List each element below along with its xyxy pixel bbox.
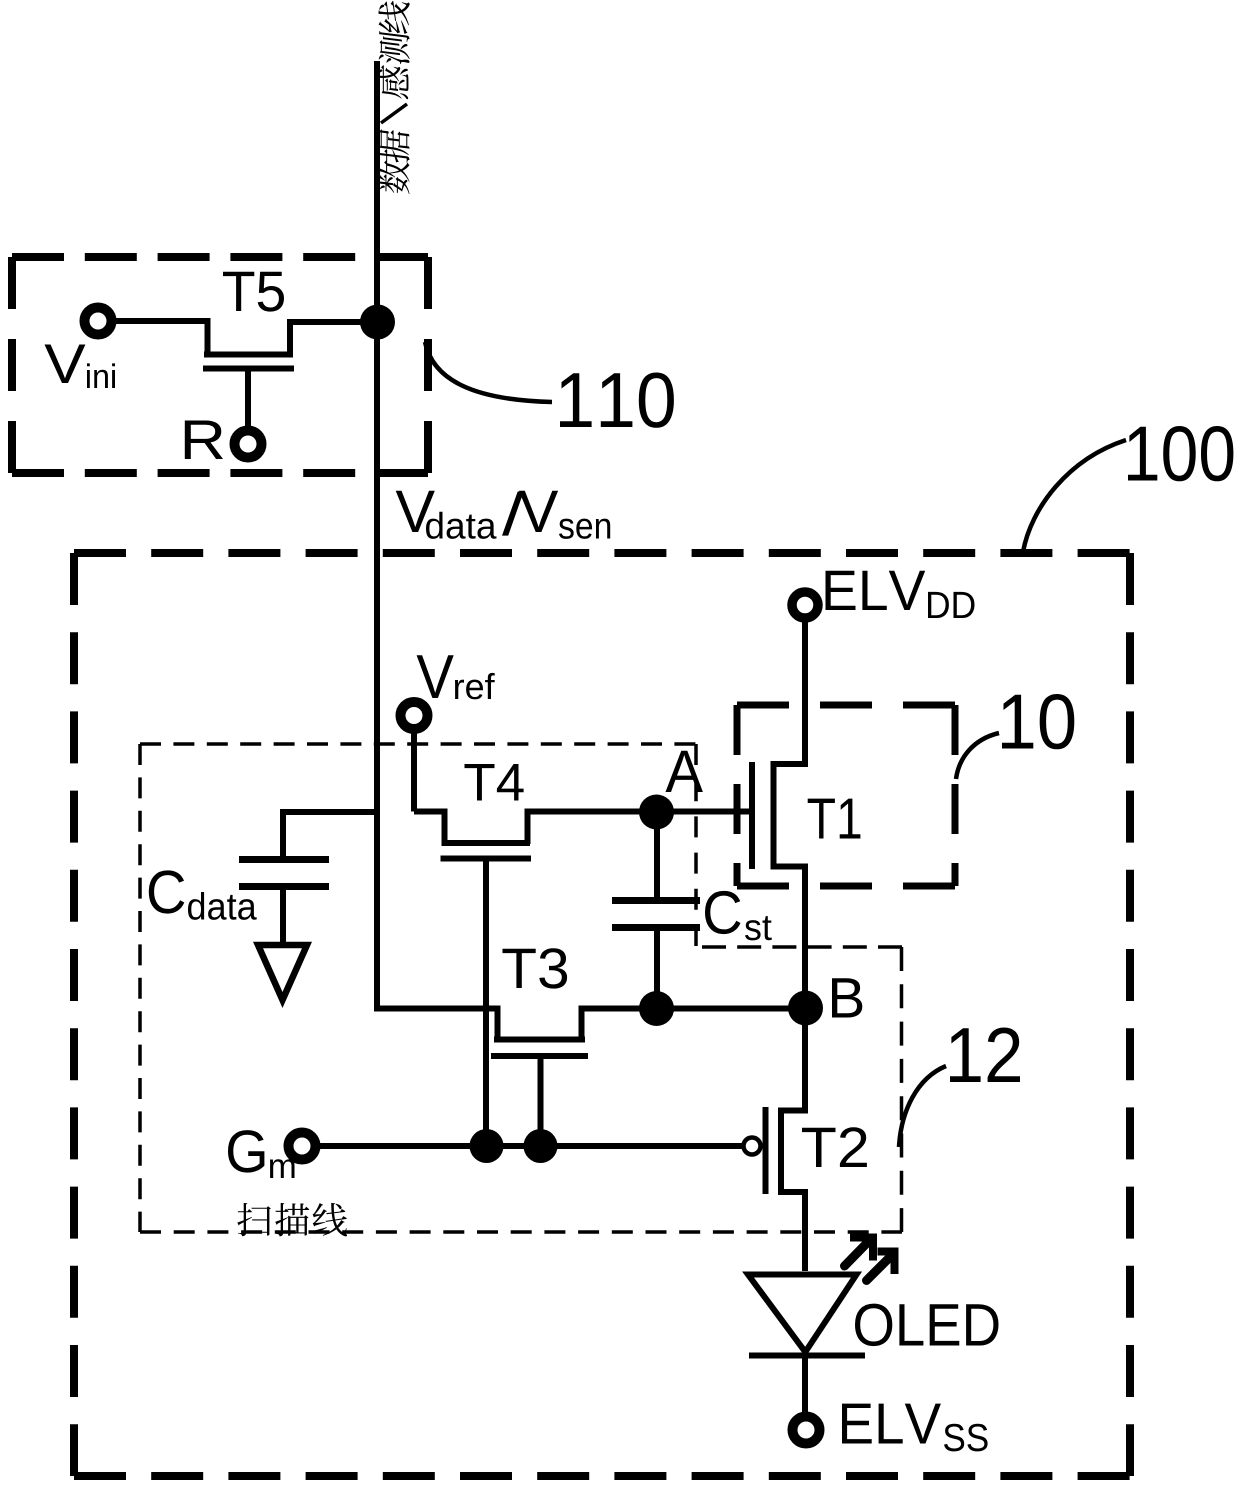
label node B: [832, 978, 862, 1017]
label T3: [503, 948, 568, 988]
transistor T2 gate bubble: [744, 1138, 761, 1155]
transistor T4 channel: [442, 840, 531, 846]
ground symbol: [258, 945, 307, 1000]
node B: [788, 991, 823, 1026]
leader curve to label 110: [425, 342, 552, 402]
transistor T3 channel: [494, 1037, 585, 1043]
terminal Vini: [85, 308, 112, 335]
label scan line (扫描线): [237, 1203, 347, 1237]
label data/sense line (数据/感测线, rotated): [378, 0, 409, 195]
dashed box 10 (driving transistor unit): [737, 705, 955, 886]
label 110: [560, 373, 674, 428]
label T4: [465, 764, 524, 801]
label T1: [808, 799, 861, 839]
wire: node A to T1 gate: [657, 809, 749, 815]
dashed box 110 (initialization unit): [12, 257, 428, 473]
node A: [639, 795, 674, 830]
label 12: [950, 1028, 1020, 1083]
wire: T5 drain to data line: [290, 322, 362, 355]
label 10: [1002, 694, 1074, 749]
label ELVDD: [826, 571, 975, 618]
label Cst: [705, 891, 772, 941]
terminal R: [235, 431, 262, 458]
transistor T3 gate bar: [491, 1053, 588, 1059]
label OLED: [855, 1304, 999, 1347]
label T5: [223, 272, 284, 312]
wire: T4 drain to node A: [528, 812, 658, 845]
wire: Gm scan line: [320, 1143, 742, 1149]
transistor T2 channel with leads (node B to OLED): [781, 1010, 805, 1271]
terminal Gm: [289, 1133, 316, 1160]
wire: T5 gate lead to R: [245, 368, 251, 426]
label Cdata: [149, 870, 257, 920]
label node A: [666, 751, 703, 792]
transistor T2 gate bar: [763, 1107, 769, 1194]
junction: T3 gate on scan line: [524, 1129, 558, 1163]
capacitor Cst plates: [612, 897, 700, 904]
wire: Cdata bottom lead: [280, 890, 286, 942]
label R: [185, 421, 223, 460]
terminal ELVDD: [792, 592, 818, 618]
dashed box 100 (pixel circuit): [74, 553, 1130, 1476]
terminal ELVSS: [793, 1417, 820, 1444]
junction: T4 gate on scan line: [470, 1129, 504, 1163]
capacitor Cdata plates: [239, 856, 329, 863]
wire: data/sense line (vertical): [374, 61, 380, 1009]
transistor T5 gate bar: [203, 366, 294, 372]
transistor T1 channel with drain/source leads: [774, 620, 806, 1007]
OLED cathode bar: [749, 1353, 865, 1359]
leader curve to label 100: [1023, 440, 1126, 552]
wire: Cst top lead from node A: [654, 826, 660, 897]
transistor T5 channel: [204, 352, 293, 358]
label Gm: [228, 1130, 295, 1178]
wire: OLED cathode to ELVSS: [802, 1356, 808, 1412]
label Vdata/Vsen: [396, 491, 611, 539]
wire: T5 source from Vini: [114, 321, 208, 355]
junction: T5 drain on data line: [360, 305, 395, 340]
thin dashed box (scan region): [140, 744, 902, 1232]
dashed box 12 (switch unit): [702, 947, 902, 1232]
wire: T4 source: [414, 812, 445, 845]
label T2: [802, 1127, 867, 1167]
wire: T3 gate lead to scan line: [538, 1056, 544, 1146]
label ELVSS: [842, 1404, 988, 1452]
label Vini: [45, 345, 116, 389]
leader curve to label 12: [899, 1066, 946, 1147]
wire: T3 source from data line: [374, 1009, 498, 1041]
OLED emission arrow 2: [867, 1252, 895, 1281]
junction: Cst bottom on B wire: [639, 991, 674, 1026]
OLED emission arrow 1: [845, 1238, 874, 1267]
wire: Cst bottom lead: [654, 931, 660, 1008]
terminal Vref: [401, 702, 428, 729]
wire: T4 gate lead to scan line: [483, 858, 489, 1146]
transistor T1 gate bar: [749, 762, 755, 869]
wire: Vref lead down: [411, 730, 417, 812]
OLED anode triangle: [748, 1275, 857, 1353]
leader curve to label 10: [956, 733, 999, 779]
transistor T4 gate bar: [441, 856, 532, 862]
label 100: [1128, 426, 1233, 481]
wire: T3 drain to node B: [582, 1009, 806, 1041]
label Vref: [417, 655, 495, 699]
wire: Cdata top plate to data line: [283, 812, 374, 858]
